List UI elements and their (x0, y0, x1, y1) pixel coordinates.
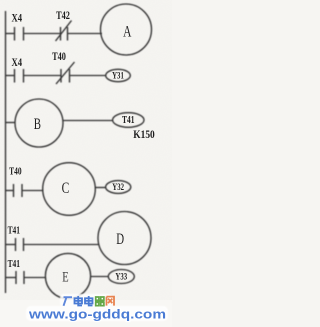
state circle D (98, 212, 151, 265)
svg-text:K150: K150 (133, 129, 154, 141)
watermark char 电 (1st) (75, 296, 83, 306)
contact T40 rung4 (NO) (14, 184, 23, 197)
svg-text:X4: X4 (12, 57, 23, 70)
contact T42 rung1 (NC) (56, 21, 72, 42)
wire rung5 left (5, 244, 15, 246)
svg-text:C: C (62, 180, 70, 197)
watermark char 广 (64, 297, 73, 306)
svg-text:www.go-gddq.com: www.go-gddq.com (28, 308, 166, 322)
wire rung2 left (5, 75, 14, 77)
watermark char 电 (2nd) (85, 296, 93, 306)
wire rung1 mid (24, 33, 61, 35)
wire rung6 mid (24, 277, 46, 279)
watermark white halo (26, 294, 168, 321)
state circle C (43, 163, 96, 216)
wire E to Y33 (91, 276, 109, 278)
wire rail to B (5, 122, 16, 124)
contact X4 rung2 (NO) (15, 69, 24, 83)
svg-text:Y32: Y32 (112, 182, 124, 192)
contact T40 rung2 (NC) (56, 62, 75, 84)
wire rung4 mid (22, 190, 44, 192)
contact T41 rung6 (NO) (16, 271, 24, 284)
contact X4 rung1 (NO) (15, 27, 24, 41)
svg-text:A: A (123, 23, 131, 40)
wire rung2 mid (24, 75, 62, 77)
svg-text:T41: T41 (8, 225, 21, 237)
svg-text:T40: T40 (52, 51, 66, 64)
svg-text:T40: T40 (9, 166, 22, 178)
svg-text:B: B (34, 115, 41, 132)
watermark char 器 (95, 297, 105, 306)
state circle E (45, 253, 90, 298)
svg-text:T41: T41 (122, 114, 134, 125)
wire rung2 right (70, 75, 107, 77)
diagram text labels (8, 10, 155, 285)
wire B to T41 (63, 120, 113, 122)
state circle B (15, 99, 63, 147)
line art (5, 4, 152, 299)
watermark char 网 (107, 297, 115, 306)
timer coil T41 outline (113, 113, 144, 128)
svg-text:D: D (116, 230, 124, 247)
svg-text:Y33: Y33 (115, 272, 127, 282)
svg-text:Y31: Y31 (112, 70, 124, 80)
coil Y31 outline (106, 69, 131, 81)
left power rail (5, 11, 7, 293)
wire rung1 left (5, 33, 14, 35)
svg-text:E: E (62, 267, 68, 284)
svg-text:X4: X4 (12, 12, 23, 25)
state circle A (101, 4, 152, 55)
wire rung4 left (5, 190, 13, 192)
wire rung1 right (68, 33, 103, 35)
wire C to Y32 (95, 187, 105, 189)
coil Y33 outline (108, 270, 134, 284)
wire rung5 right (24, 244, 99, 246)
svg-text:T42: T42 (56, 10, 70, 23)
contact T41 rung5 (NO) (16, 238, 24, 251)
wire rung6 left (5, 277, 16, 279)
paper background (0, 0, 172, 327)
svg-text:T41: T41 (8, 259, 21, 271)
coil Y32 outline (106, 181, 131, 194)
